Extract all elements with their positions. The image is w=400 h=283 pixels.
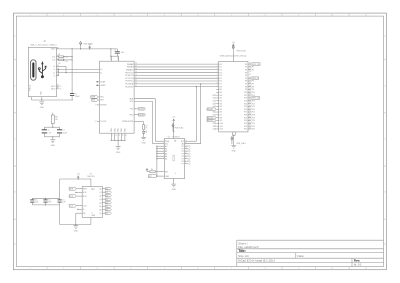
svg-text:5: 5: [217, 74, 218, 76]
svg-text:P7: P7: [252, 84, 254, 86]
svg-text:P23: P23: [252, 129, 255, 131]
svg-text:P7: P7: [182, 163, 184, 165]
svg-text:XT: XT: [95, 121, 97, 123]
svg-text:9: 9: [217, 85, 218, 87]
svg-text:G10: G10: [220, 123, 223, 125]
svg-text:Size: A4: Size: A4: [238, 254, 249, 258]
svg-text:PD0/SCL: PD0/SCL: [125, 81, 133, 83]
svg-text:16: 16: [173, 140, 175, 142]
power flag on U2 supply: [172, 128, 174, 132]
wire bus row 8 drop to expander: [200, 84, 202, 144]
svg-text:29: 29: [249, 74, 251, 76]
svg-text:3: 3: [97, 268, 98, 270]
svg-text:C6: C6: [47, 130, 49, 132]
svg-text:R2: R2: [58, 63, 60, 65]
svg-text:P22: P22: [252, 126, 255, 128]
svg-text:22: 22: [119, 135, 121, 137]
svg-text:P9: P9: [252, 89, 254, 91]
svg-text:D+: D+: [53, 66, 55, 68]
svg-text:GND: GND: [74, 231, 79, 233]
global label RCLK at U3: [69, 195, 76, 198]
svg-text:CC2: CC2: [52, 60, 55, 62]
connector J1 USB_C_Receptacle_USB2.0: [28, 47, 56, 96]
svg-text:GND: GND: [51, 145, 56, 147]
svg-text:P19: P19: [244, 117, 247, 119]
svg-text:PWR_FLAG: PWR_FLAG: [236, 142, 246, 145]
svg-text:8: 8: [265, 14, 266, 16]
svg-text:P8: P8: [252, 86, 254, 88]
bypass caps rail bottom to ground: [32, 204, 59, 206]
resistor R3 1K: [143, 125, 145, 130]
svg-text:31: 31: [135, 77, 137, 79]
svg-text:SBU2: SBU2: [51, 88, 55, 90]
svg-text:Q3: Q3: [99, 199, 101, 201]
svg-text:D3: D3: [220, 72, 222, 74]
svg-text:P13: P13: [252, 100, 255, 102]
svg-text:P8: P8: [245, 86, 247, 88]
svg-text:P3: P3: [245, 72, 247, 74]
svg-text:GND: GND: [40, 107, 45, 109]
svg-text:P2: P2: [245, 69, 247, 71]
svg-text:UVCC: UVCC: [118, 55, 120, 61]
svg-text:PB5/A9: PB5/A9: [127, 66, 133, 69]
svg-text:PWRSOURCE: PWRSOURCE: [122, 121, 134, 123]
svg-text:BOOT1: BOOT1: [207, 120, 213, 122]
svg-text:P23: P23: [244, 129, 247, 131]
wire VBUS drop to MCU power pins: [110, 49, 112, 56]
svg-text:Q3: Q3: [106, 199, 108, 201]
global label TXLED: [134, 108, 138, 110]
svg-text:USB_C_Receptacle_USB2.0: USB_C_Receptacle_USB2.0: [30, 43, 57, 46]
svg-text:GPIO_D0: GPIO_D0: [252, 64, 260, 66]
svg-text:G11: G11: [220, 126, 223, 128]
+5V and PWR_FLAG at J2 top: [232, 53, 234, 62]
svg-text:GPIO_12: GPIO_12: [252, 98, 259, 100]
svg-text:2: 2: [63, 14, 64, 16]
svg-text:PWR_FLAG: PWR_FLAG: [83, 42, 93, 45]
svg-text:G12: G12: [212, 129, 215, 131]
svg-text:D0: D0: [220, 64, 222, 66]
+5V rail to U3: [60, 178, 91, 180]
svg-text:P21: P21: [252, 123, 255, 125]
svg-text:7: 7: [231, 14, 232, 16]
svg-text:G2: G2: [220, 100, 222, 102]
power flag at J2 ground: [231, 141, 233, 145]
svg-text:16: 16: [91, 188, 93, 190]
svg-text:PD1/SDA: PD1/SDA: [125, 83, 134, 86]
LED D1: [142, 131, 147, 134]
svg-text:SHIELD: SHIELD: [30, 84, 32, 91]
svg-text:P18: P18: [252, 115, 255, 117]
wire cap rail top: [44, 126, 59, 128]
ground symbol below U2: [173, 182, 175, 185]
svg-text:Id: 1/1: Id: 1/1: [354, 263, 362, 267]
wire CC pulldown vertical to VBUS cap branch: [71, 49, 73, 94]
capacitor C2 100nF at MCU VCC: [116, 49, 118, 52]
wire to MCU ground symbol: [117, 140, 119, 146]
svg-text:P10: P10: [244, 92, 247, 94]
svg-text:G12: G12: [220, 129, 223, 131]
resistor R1 5.1K on CC1: [59, 56, 64, 58]
svg-text:4.7uF: 4.7uF: [47, 133, 51, 135]
svg-text:Title:: Title:: [238, 249, 246, 253]
svg-text:G4: G4: [220, 106, 222, 108]
svg-text:17: 17: [95, 105, 97, 107]
svg-text:GND: GND: [172, 189, 177, 191]
svg-text:P5: P5: [245, 78, 247, 80]
svg-text:Q4: Q4: [99, 202, 101, 204]
global label HWB at MCU: [91, 96, 98, 99]
U2 ground pin: [173, 179, 175, 184]
svg-text:TCOUT: TCOUT: [100, 121, 107, 123]
svg-text:32: 32: [135, 80, 137, 82]
svg-text:4: 4: [130, 14, 131, 16]
MCU power pin stubs: [110, 56, 112, 61]
capacitor C3: [31, 198, 33, 200]
svg-text:G11: G11: [212, 126, 215, 128]
wire cap rail bottom: [44, 136, 59, 138]
svg-text:Q2: Q2: [99, 195, 101, 197]
svg-text:10: 10: [331, 14, 333, 16]
svg-text:100nF: 100nF: [63, 133, 67, 135]
svg-text:33: 33: [135, 82, 137, 84]
svg-text:8: 8: [217, 82, 218, 84]
svg-text:G1: G1: [212, 98, 214, 100]
svg-text:D1: D1: [220, 67, 222, 69]
svg-text:P13: P13: [244, 100, 247, 102]
svg-text:P14: P14: [252, 103, 255, 105]
ground symbol below MCU: [117, 145, 119, 148]
capacitor C7 100nF: [59, 127, 61, 130]
svg-text:33: 33: [122, 135, 124, 137]
svg-text:P14: P14: [244, 103, 247, 105]
svg-text:TXLED: TXLED: [139, 109, 145, 111]
svg-text:C1: C1: [75, 94, 77, 96]
svg-text:74HC595: 74HC595: [87, 176, 95, 178]
svg-text:D6: D6: [220, 81, 222, 83]
capacitor C1 on VBUS to ground: [71, 92, 73, 94]
svg-text:G0: G0: [212, 95, 214, 97]
svg-text:D2: D2: [220, 69, 222, 71]
+5V supply to U2: [173, 121, 175, 123]
wire bus row 9 drop to expander: [195, 87, 197, 142]
svg-text:1: 1: [30, 14, 31, 16]
connector J2 expander pin header box: [219, 62, 248, 132]
svg-text:10: 10: [331, 268, 333, 270]
resistor R5 vertical filter element: [52, 113, 54, 115]
svg-text:P1: P1: [245, 67, 247, 69]
USB-C receptacle pill glyph: [31, 60, 36, 80]
svg-text:Q0: Q0: [99, 188, 101, 190]
ground symbol below filter caps: [52, 138, 54, 141]
svg-text:SCL: SCL: [130, 101, 134, 103]
svg-text:R1: R1: [58, 54, 60, 56]
svg-text:P16: P16: [244, 109, 247, 111]
U3 pin SRCLK: [76, 191, 82, 193]
svg-text:G8: G8: [220, 117, 222, 119]
svg-text:Q6: Q6: [106, 209, 108, 211]
svg-text:G5: G5: [220, 109, 222, 111]
svg-text:UCAP: UCAP: [100, 81, 106, 84]
svg-text:G9: G9: [220, 120, 222, 122]
svg-text:10: 10: [115, 135, 117, 137]
svg-text:P20: P20: [252, 120, 255, 122]
svg-text:RXLED: RXLED: [139, 114, 146, 116]
svg-text:7: 7: [231, 268, 232, 270]
svg-text:29: 29: [135, 71, 137, 73]
wire I2C SCL from MCU to expander: [134, 101, 153, 103]
svg-text:RXL: RXL: [130, 114, 134, 116]
svg-text:1: 1: [30, 268, 31, 270]
svg-text:CC1: CC1: [52, 57, 55, 59]
svg-text:30: 30: [135, 74, 137, 76]
svg-text:2: 2: [217, 66, 218, 68]
svg-text:P7: P7: [245, 84, 247, 86]
MCU ground pins: [110, 133, 112, 140]
capacitor C6 4.7uF: [43, 127, 45, 130]
svg-text:D+: D+: [53, 72, 55, 74]
svg-text:P11: P11: [244, 95, 247, 97]
U3 pin 209.4 stub: [78, 208, 82, 210]
svg-text:5: 5: [164, 268, 165, 270]
global label SER at U3: [69, 187, 76, 190]
svg-text:6: 6: [197, 14, 198, 16]
bypass caps rail top: [32, 197, 59, 199]
svg-text:G2: G2: [212, 100, 214, 102]
svg-text:27: 27: [135, 66, 137, 68]
svg-text:C2: C2: [114, 50, 116, 52]
svg-text:D7: D7: [220, 84, 222, 86]
svg-text:GND: GND: [116, 152, 121, 154]
IC U2 I2C port expander box: [164, 139, 184, 179]
svg-text:Q2: Q2: [106, 195, 108, 197]
svg-text:43: 43: [125, 135, 127, 137]
U2 INT pullup resistor R4: [146, 170, 148, 172]
svg-text:6: 6: [197, 268, 198, 270]
U3 outputs Q0-Q7 with labels: [103, 188, 106, 190]
svg-text:Q7: Q7: [106, 213, 108, 215]
junction of filter caps: [52, 127, 53, 128]
svg-text:Q1: Q1: [106, 192, 108, 194]
svg-text:RESET: RESET: [207, 109, 214, 111]
resistor R2 5.1K on CC2: [59, 59, 64, 61]
svg-text:D4: D4: [220, 75, 222, 77]
svg-text:P18: P18: [244, 115, 247, 117]
svg-text:4: 4: [130, 268, 131, 270]
svg-text:G7: G7: [220, 115, 222, 117]
svg-text:GND: GND: [165, 176, 170, 178]
svg-text:9: 9: [298, 268, 299, 270]
junction on VBUS at cap branch: [72, 48, 73, 49]
svg-text:2: 2: [63, 268, 64, 270]
svg-text:P15: P15: [244, 106, 247, 108]
svg-text:PB6/A10: PB6/A10: [126, 68, 133, 71]
svg-text:P1: P1: [252, 67, 254, 69]
svg-text:P9: P9: [245, 89, 247, 91]
svg-text:TXL: TXL: [130, 109, 133, 111]
J2 bottom power pins to ground: [231, 132, 233, 135]
svg-text:P7: P7: [187, 163, 189, 165]
svg-text:11: 11: [365, 268, 367, 270]
svg-text:PC7/CLK: PC7/CLK: [125, 78, 134, 80]
svg-text:G1: G1: [220, 98, 222, 100]
svg-text:G6: G6: [220, 112, 222, 114]
svg-text:PWR_FLAG: PWR_FLAG: [237, 49, 247, 52]
svg-text:PB4/A8: PB4/A8: [127, 63, 133, 66]
ground symbol on cap rail: [75, 224, 76, 225]
svg-text:3: 3: [97, 14, 98, 16]
wire jog D- pair: [58, 69, 60, 75]
svg-text:UGND: UGND: [100, 85, 106, 87]
svg-text:SS/PB0: SS/PB0: [100, 105, 106, 107]
svg-text:PC6/OC3: PC6/OC3: [125, 75, 133, 77]
svg-text:P17: P17: [252, 112, 255, 114]
global label SRCLR at U3: [69, 204, 76, 207]
svg-text:P6: P6: [245, 81, 247, 83]
svg-text:P0: P0: [245, 64, 247, 66]
svg-text:Date:: Date:: [298, 254, 305, 258]
svg-text:P16: P16: [252, 109, 255, 111]
svg-text:Q6: Q6: [99, 209, 101, 211]
svg-text:P12: P12: [244, 98, 247, 100]
svg-text:KiCad E.D.A. kicad (5.1.10)-1: KiCad E.D.A. kicad (5.1.10)-1: [238, 259, 275, 263]
capacitor C5: [59, 198, 61, 200]
wire I2C SDA from MCU to expander: [134, 98, 155, 100]
svg-text:D5: D5: [220, 78, 222, 80]
svg-text:34: 34: [135, 85, 137, 87]
svg-text:G10: G10: [212, 123, 215, 125]
svg-text:GND: GND: [141, 142, 146, 144]
svg-text:D8: D8: [220, 86, 222, 88]
title block: [237, 240, 384, 266]
svg-text:28: 28: [135, 68, 137, 70]
svg-text:P15: P15: [252, 106, 255, 108]
USB trident symbol: [38, 61, 46, 78]
capacitor C4: [45, 198, 47, 200]
svg-text:P20: P20: [244, 120, 247, 122]
svg-text:11: 11: [365, 14, 367, 16]
svg-text:P17: P17: [244, 112, 247, 114]
svg-text:G3: G3: [212, 103, 214, 105]
power flag PWR_FLAG on VBUS: [80, 45, 82, 49]
svg-text:G3: G3: [220, 103, 222, 105]
svg-text:Q1: Q1: [99, 192, 101, 194]
wire jog D+ pair: [65, 66, 67, 72]
svg-text:GPIO_5: GPIO_5: [252, 78, 258, 80]
svg-text:G6: G6: [212, 112, 214, 114]
svg-text:P10: P10: [252, 92, 255, 94]
global label RXLED: [134, 114, 138, 116]
svg-text:GND: GND: [232, 150, 237, 152]
+5V symbol on VBUS net: [89, 47, 91, 49]
global label RST at MCU: [92, 99, 98, 102]
svg-text:R3: R3: [145, 126, 147, 128]
wire +5V rail down to bypass caps: [59, 179, 61, 198]
svg-text:100n: 100n: [121, 52, 125, 54]
svg-text:100nF: 100nF: [75, 96, 80, 98]
svg-text:PE2: PE2: [100, 97, 103, 99]
ground below LED D1: [143, 136, 145, 139]
svg-text:Q4: Q4: [106, 202, 108, 204]
svg-text:PD2/RX1: PD2/RX1: [125, 86, 133, 88]
ground symbol below J2: [233, 144, 235, 147]
MCU left misc pins: [98, 81, 100, 83]
svg-text:R4: R4: [151, 169, 153, 171]
svg-text:Q5: Q5: [99, 206, 101, 208]
MCU U1 main controller box: [99, 61, 134, 133]
wire to filter ground: [52, 137, 54, 139]
MCU pin TCOUT: [97, 120, 99, 122]
bus wires MCU to pin header: [134, 63, 219, 65]
svg-text:28: 28: [249, 71, 251, 73]
svg-text:P21: P21: [244, 123, 247, 125]
svg-text:A5: A5: [165, 157, 167, 160]
svg-text:P2: P2: [252, 69, 254, 71]
svg-text:4: 4: [217, 71, 218, 73]
U3 ground pin wire: [90, 217, 92, 224]
svg-text:Q5: Q5: [106, 206, 108, 208]
svg-text:P6: P6: [252, 81, 254, 83]
svg-text:5: 5: [164, 14, 165, 16]
svg-text:P22: P22: [244, 126, 247, 128]
U3 OE tie to ground: [76, 212, 82, 214]
svg-text:6: 6: [217, 77, 218, 79]
svg-text:P4: P4: [245, 75, 247, 77]
svg-text:9: 9: [298, 14, 299, 16]
svg-text:3: 3: [217, 68, 218, 70]
svg-text:8: 8: [91, 212, 93, 213]
svg-text:PB7/OC0: PB7/OC0: [125, 72, 133, 74]
wire PWRSOURCE pin to resistor: [134, 121, 144, 123]
svg-text:C7: C7: [63, 130, 65, 132]
ground symbol below J1: [41, 100, 43, 103]
svg-text:26: 26: [135, 63, 137, 65]
svg-text:FB1: FB1: [55, 117, 58, 119]
global label INT at U2: [148, 175, 157, 178]
svg-text:Q7: Q7: [99, 213, 101, 215]
svg-text:8: 8: [265, 268, 266, 270]
MCU pin SS: [97, 104, 99, 106]
IC U3 74HC595 box: [82, 187, 102, 218]
svg-text:1: 1: [217, 63, 218, 65]
svg-text:U2: U2: [168, 136, 170, 138]
U2 address pins tied: [157, 145, 164, 147]
svg-text:Q0: Q0: [106, 188, 108, 190]
J1 shield and gnd pins to ground: [31, 97, 33, 100]
svg-text:P19: P19: [252, 117, 255, 119]
svg-text:7: 7: [217, 80, 218, 82]
svg-text:G0: G0: [220, 95, 222, 97]
